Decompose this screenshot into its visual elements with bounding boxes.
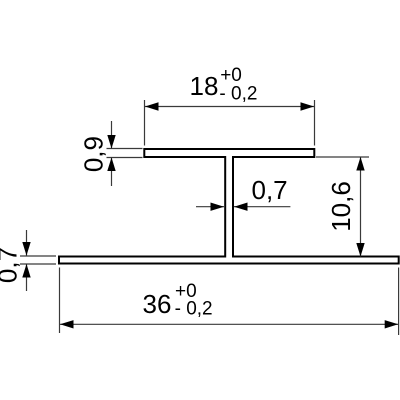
dimension web 0,7: arrow right (points left) <box>234 203 248 211</box>
dimension 0,9: dimension line upper <box>111 121 113 149</box>
svg-text:18: 18 <box>190 71 219 101</box>
dimension 36: dimension line <box>60 323 399 325</box>
svg-text:- 0,2: - 0,2 <box>175 299 213 320</box>
svg-text:0,7: 0,7 <box>252 175 288 205</box>
dimension 18: dimension line <box>145 106 315 108</box>
dimension web 0,7: arrow left (points right) <box>211 203 225 211</box>
svg-text:36: 36 <box>143 289 172 319</box>
dimension 10,6: extension line <box>316 156 369 158</box>
dimension 0,9: extension line top <box>107 148 143 150</box>
dimension 0,9: dimension line lower <box>111 158 113 187</box>
dimension 36: extension line left <box>59 268 61 334</box>
H-profile outline <box>59 149 399 264</box>
dimension 18: arrow right <box>301 102 315 110</box>
dimension 0,9: extension line bottom <box>107 157 143 159</box>
dimension 36: arrow right <box>385 320 399 328</box>
dimension bottom 0,7: extension line bottom <box>20 263 56 265</box>
dimension bottom 0,7: dimension line upper <box>26 230 28 256</box>
dimension bottom 0,7: arrow upper (points down) <box>22 242 30 256</box>
dimension 10,6: arrow top (points up) <box>356 157 364 171</box>
dimension web 0,7: dimension line left tail <box>196 206 224 208</box>
dimension 36: extension line right <box>398 268 400 336</box>
svg-text:- 0,2: - 0,2 <box>219 84 257 105</box>
dimension 0,9: arrow upper (points down) <box>107 135 115 149</box>
dimension 36: arrow left <box>60 320 74 328</box>
dimension bottom 0,7: extension line top <box>20 255 56 257</box>
svg-text:0,9: 0,9 <box>79 136 109 172</box>
dimension bottom 0,7: arrow lower (points up) <box>22 264 30 278</box>
dimension 18: extension line right <box>314 100 316 146</box>
dimension web 0,7: dimension line right tail <box>234 206 290 208</box>
dimension 10,6: arrow bottom (points down) <box>356 243 364 257</box>
dimension 18: extension line left <box>144 100 146 146</box>
dimension 10,6: dimension line <box>360 157 362 257</box>
dimension 0,9: arrow lower (points up) <box>107 158 115 172</box>
svg-text:0,7: 0,7 <box>0 247 23 283</box>
svg-text:10,6: 10,6 <box>326 181 356 232</box>
dimension 18: arrow left <box>145 102 159 110</box>
dimension bottom 0,7: dimension line lower <box>26 264 28 291</box>
